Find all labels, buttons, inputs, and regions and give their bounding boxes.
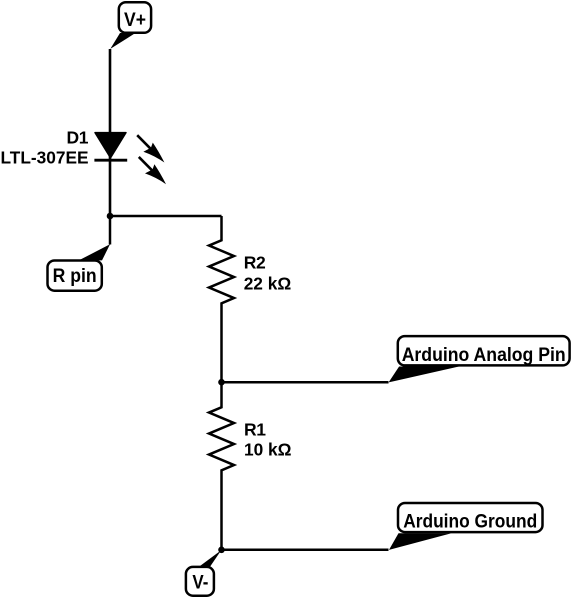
- svg-text:22 kΩ: 22 kΩ: [244, 274, 292, 294]
- LED D1 triangle (anode): [95, 133, 126, 158]
- svg-text:V-: V-: [192, 572, 208, 593]
- flag V+: [119, 2, 151, 33]
- flag R pin tail: [79, 244, 110, 260]
- flag V-: [186, 567, 214, 596]
- node C junction dot: [218, 547, 225, 554]
- LED light arrow 2: [139, 157, 166, 184]
- resistor R2: [209, 216, 234, 382]
- svg-text:Arduino Ground: Arduino Ground: [403, 512, 537, 533]
- wire node B to Arduino Analog Pin flag: [222, 381, 389, 384]
- svg-text:10 kΩ: 10 kΩ: [244, 440, 292, 460]
- wire node A to R2 corner: [110, 215, 222, 218]
- svg-text:R1: R1: [244, 420, 266, 440]
- flag Arduino Analog Pin: [398, 336, 570, 366]
- flag Arduino Ground tail: [389, 533, 451, 550]
- resistor R1: [209, 382, 234, 550]
- svg-text:R pin: R pin: [53, 266, 97, 287]
- flag V- tail: [199, 550, 221, 567]
- wire V+ to LED to node A: [109, 49, 112, 216]
- node B junction dot: [218, 379, 225, 386]
- flag Arduino Ground: [398, 503, 543, 533]
- svg-text:LTL-307EE: LTL-307EE: [1, 148, 89, 168]
- svg-text:Arduino Analog Pin: Arduino Analog Pin: [402, 345, 566, 366]
- wire node A to R pin flag stub: [109, 216, 112, 245]
- LED D1 cathode bar: [94, 159, 127, 162]
- svg-text:R2: R2: [244, 253, 266, 273]
- flag R pin: [48, 261, 102, 291]
- wire node C to Arduino Ground flag: [222, 549, 389, 552]
- svg-text:D1: D1: [67, 127, 89, 147]
- svg-text:V+: V+: [124, 10, 146, 31]
- node A junction dot: [107, 213, 114, 220]
- flag V+ tail: [110, 33, 135, 49]
- flag Arduino Analog Pin tail: [389, 367, 459, 383]
- LED light arrow 1: [137, 135, 164, 162]
